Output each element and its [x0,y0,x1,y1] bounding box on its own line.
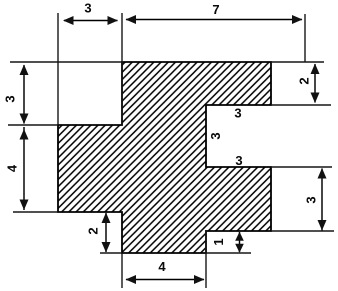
wire: extension line y=62 right of body [271,61,324,63]
svg-text:7: 7 [212,2,219,17]
dimension 4 left: line [23,127,25,210]
dimension 3 top: left arrow [63,16,74,25]
wire: vertical extension x=122 above body [121,13,123,125]
svg-text:2: 2 [297,77,312,84]
wire: extension line y=62 left of body [10,61,122,63]
wire: extension line y=125 left of body [8,124,58,126]
wire: extension line y=253 left of body [100,252,122,254]
dimension 7 top: line [126,19,302,21]
dimension 1 bottom-right: down arrow [235,244,244,253]
dimension 2 bottom-left: down arrow [102,242,111,253]
dimension 7 top: right arrow [292,15,303,24]
dimension 4 left: up arrow [20,129,29,140]
dimension 2 bottom-left: line [105,213,107,252]
dimension 3 right lower: up arrow [318,168,327,179]
dimension 4 bottom: line [126,279,204,281]
svg-text:3: 3 [3,95,18,102]
dimension 3 top: line [64,20,118,22]
dimension 1 bottom-right: up arrow [235,232,244,241]
dimension 3 right lower: line [321,169,323,231]
dimension 4 left: down arrow [20,200,29,211]
dimension 2 bottom-left: up arrow [102,213,111,224]
dimension 2 right upper: line [314,64,316,103]
wire: extension line y=105 right of body [271,104,331,106]
dimension 3 left: line [23,65,25,124]
hatched stepped body [58,62,271,253]
svg-text:4: 4 [158,259,166,274]
svg-text:3: 3 [234,106,241,121]
dimension 4 bottom: left arrow [126,275,137,284]
svg-text:4: 4 [5,164,20,172]
svg-text:3: 3 [208,132,223,139]
svg-text:3: 3 [235,153,242,168]
dimension 3 left: down arrow [20,114,29,125]
dimension 3 right lower: down arrow [318,220,327,231]
svg-text:1: 1 [211,238,226,245]
dimension 3 left: up arrow [20,65,29,76]
wire: extension line y=212 left of body [13,211,58,213]
wire: vertical extension x=206 below body [205,230,207,288]
dimension 7 top: left arrow [126,15,137,24]
wire: vertical extension x=305 for dim 7 [304,14,306,62]
wire: extension line y=231 right of body [271,230,334,232]
dimension 3 top: right arrow [108,16,119,25]
dimension 2 right upper: down arrow [311,93,320,104]
svg-text:3: 3 [84,0,91,15]
wire: vertical extension x=58 above body [57,13,59,125]
wire: extension line y=167 right of body [271,166,332,168]
svg-text:3: 3 [304,196,319,203]
svg-text:2: 2 [86,227,101,234]
dimension 1 bottom-right: line [239,232,241,252]
wire: vertical extension x=122 below body [121,253,123,288]
wire: extension line y=253 right of body [206,252,251,254]
dimension 4 bottom: right arrow [194,275,205,284]
dimension 2 right upper: up arrow [311,64,320,75]
